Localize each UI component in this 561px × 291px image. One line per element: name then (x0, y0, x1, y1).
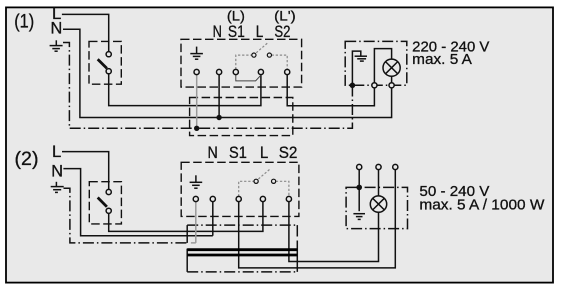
ground (device 2) (190, 175, 203, 188)
wire S2 terminal to lamp 1 (287, 75, 374, 106)
wire S1 to lamp 2 right terminal (239, 170, 396, 268)
earth chain loop around cable 2 (187, 225, 297, 272)
lamp terminals 1 (372, 83, 377, 88)
svg-text:S2: S2 (274, 23, 290, 41)
svg-text:(L'): (L') (274, 8, 296, 24)
lamp box 2 (346, 187, 407, 228)
earth terminal drop (gray) 1 (196, 75, 198, 129)
ground (mains 2) (51, 182, 64, 193)
terminal circles device 1 (194, 69, 290, 74)
wire N mains to terminal N 2 (63, 169, 212, 236)
junction dot lamp earth 2 (356, 185, 362, 191)
ground (lamp 1) (352, 51, 367, 85)
wire L mains to switch 2 (62, 152, 109, 190)
bridge S1 to L (jumper) (236, 75, 261, 81)
earth terminal drop (gray) 2 (191, 202, 196, 243)
switch S (wall switch 2) (98, 189, 112, 213)
wire earth chain (mains 1 to lamp 1) (63, 43, 352, 129)
switch box 1 (89, 41, 121, 84)
ground (lamp 2) (353, 170, 365, 220)
internal contact circles 1 (252, 53, 256, 57)
svg-text:N: N (51, 162, 63, 180)
svg-text:S1: S1 (228, 23, 245, 41)
wire switch 2 output to terminal L 2 (109, 202, 263, 232)
lamp E1 (383, 59, 400, 76)
junction dot lamp earth 1 (350, 83, 356, 89)
wire N terminal drop 1 (218, 75, 220, 118)
ground (mains 1) (50, 40, 63, 51)
internal switch contact (device 1) (236, 42, 287, 69)
wire L mains to switch 1 (62, 14, 109, 51)
lamp E2 feed wire (378, 170, 380, 196)
cable bars (thick mains cable) (187, 248, 297, 251)
wire N terminal drop 2 (212, 202, 214, 236)
wire S2 to lamp 2 (289, 202, 379, 262)
svg-text:max. 5 A / 1000 W: max. 5 A / 1000 W (419, 198, 544, 214)
svg-text:N: N (51, 19, 63, 37)
svg-text:(1): (1) (14, 12, 34, 33)
svg-text:S1: S1 (229, 143, 247, 162)
device box 1 (181, 39, 302, 87)
lamp E1 feed wires (374, 49, 391, 83)
svg-text:L: L (256, 23, 264, 41)
svg-text:S2: S2 (279, 143, 298, 162)
device box 2 (181, 162, 299, 216)
switch box 2 (89, 182, 121, 224)
junction dot earth 1 (194, 126, 199, 131)
lamp E2 (370, 196, 386, 212)
lamp box 1 (345, 41, 407, 85)
svg-text:(2): (2) (15, 149, 39, 170)
switch S (wall switch 1) (98, 52, 112, 74)
wire earth chain (mains 2) (64, 188, 188, 243)
internal switch contact (device 2) (239, 169, 289, 197)
lamp terminals 2 (357, 164, 398, 169)
svg-text:L: L (260, 143, 268, 162)
svg-text:(L): (L) (227, 8, 245, 24)
ground (device 1) (190, 47, 203, 60)
svg-text:N: N (208, 143, 218, 162)
terminal circles device 2 (193, 196, 291, 201)
mounting box 1 (190, 98, 293, 136)
svg-text:max. 5 A: max. 5 A (412, 52, 472, 68)
wire N mains to terminal N and lamp 1 (63, 29, 392, 117)
svg-text:L: L (52, 143, 61, 161)
wire switch 1 output to terminal L (109, 74, 261, 106)
internal contact circles 2 (254, 179, 258, 183)
junction dot N 1 (216, 115, 221, 120)
svg-text:N: N (213, 23, 222, 41)
